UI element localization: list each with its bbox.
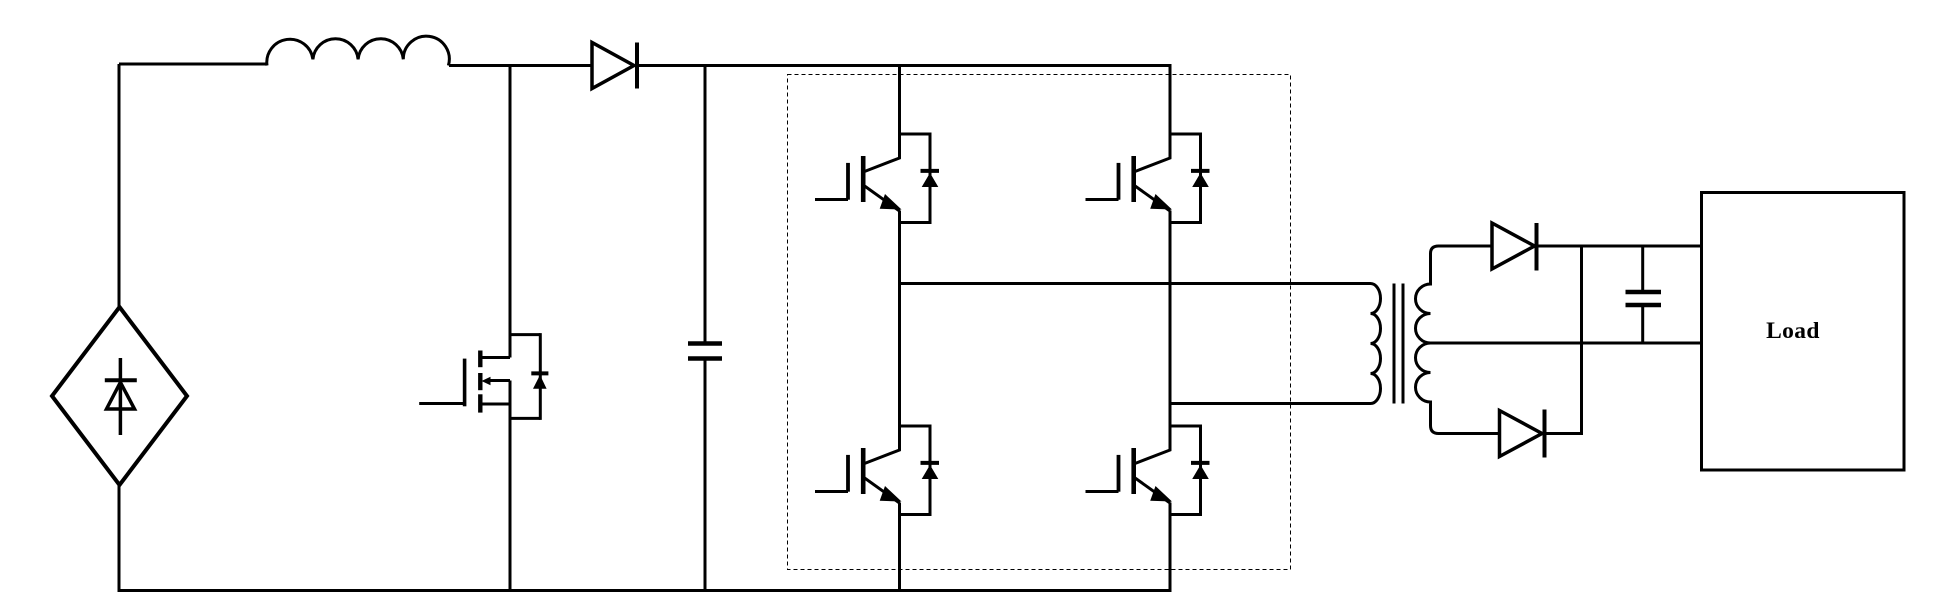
wire: left leg lower — [898, 503, 901, 593]
IGBT Q1 top-left — [815, 133, 939, 225]
wire: output top rail to load — [1537, 245, 1703, 248]
inductor L1 — [267, 36, 450, 65]
MOSFET body diode branch top — [510, 333, 540, 336]
output capacitor top plate — [1626, 290, 1662, 294]
wire: center tap to load — [1431, 342, 1703, 345]
wire: right leg upper — [1169, 64, 1172, 159]
output diode D3 triangle — [1500, 411, 1543, 457]
wire: DC-link capacitor top vertical — [704, 64, 707, 344]
MOSFET body diode branch bottom — [510, 417, 540, 420]
IGBT Q4 bottom-right — [1086, 425, 1210, 517]
DC-link capacitor bottom plate — [688, 356, 722, 360]
bridge inner diode cathode bar — [105, 378, 137, 382]
wire: top rail diode to right leg — [637, 64, 1170, 67]
output capacitor bottom plate — [1626, 303, 1662, 307]
IGBT Q2 top-right — [1086, 133, 1210, 225]
DC-link capacitor top plate — [688, 341, 722, 345]
wire: left vertical source bottom — [118, 484, 121, 592]
IGBT Q3 bottom-left — [815, 425, 939, 517]
wire: DC-link capacitor bottom vertical — [704, 359, 707, 593]
dotted inverter box — [788, 75, 1291, 570]
boost diode D1 triangle — [592, 43, 634, 89]
wire: right leg middle — [1169, 211, 1172, 451]
MOSFET channel bar bottom — [478, 394, 482, 412]
output diode D2 triangle — [1492, 223, 1535, 269]
bridge inner diode vertical — [119, 358, 123, 435]
wire: phase A to transformer primary with winding — [900, 284, 1381, 404]
MOSFET source lead — [480, 403, 510, 406]
MOSFET body diode cathode bar — [531, 371, 548, 375]
wire: bottom diode to junction — [1545, 432, 1584, 435]
wire: left leg upper — [898, 64, 901, 159]
output diode D3 cathode bar — [1543, 410, 1547, 458]
boost diode D1 cathode bar — [635, 43, 639, 89]
wire: right leg lower — [1169, 503, 1172, 593]
wire: top rail left segment (source to inductor) — [119, 63, 267, 66]
MOSFET body arrowhead — [482, 377, 491, 386]
load box — [1702, 193, 1905, 471]
MOSFET body diode triangle — [533, 375, 547, 389]
MOSFET gate bar — [463, 359, 467, 407]
MOSFET body diode vertical — [539, 333, 542, 420]
MOSFET body lead with arrow — [489, 379, 510, 382]
wire: bottom rail — [119, 589, 1170, 592]
transformer core line left — [1393, 284, 1396, 404]
wire: left vertical source top — [118, 64, 121, 308]
wire: top rail inductor to boost diode — [449, 64, 592, 67]
wire: left leg middle — [898, 211, 901, 451]
wire: cathode junction vertical — [1580, 246, 1583, 435]
MOSFET drain lead — [480, 356, 510, 359]
wire: MOSFET drain vertical — [509, 64, 512, 358]
svg-text:Load: Load — [1766, 318, 1820, 344]
rectifier bridge diamond — [52, 307, 187, 485]
wire: output capacitor bottom vertical — [1641, 305, 1644, 343]
transformer secondary winding with leads — [1416, 246, 1500, 434]
bridge inner diode triangle — [107, 382, 135, 409]
wire: output capacitor top vertical — [1641, 246, 1644, 292]
MOSFET channel bar top — [478, 351, 482, 368]
MOSFET gate lead — [419, 402, 464, 405]
transformer core line right — [1402, 284, 1405, 404]
wire: MOSFET source vertical to bottom rail — [509, 381, 512, 593]
MOSFET channel bar middle — [478, 373, 482, 390]
output diode D2 cathode bar — [1535, 223, 1539, 271]
